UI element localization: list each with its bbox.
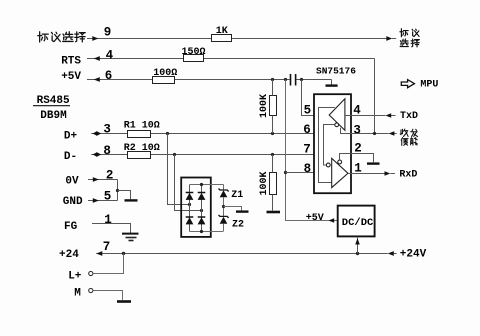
svg-text:+5V: +5V [61, 71, 81, 83]
diode bridge box [181, 178, 211, 237]
junction pin8 Vcc tap [284, 171, 287, 174]
arrow at pin 7 (left-pointing) [96, 251, 102, 256]
wire D- down to bridge [175, 155, 202, 211]
svg-text:Z2: Z2 [232, 220, 244, 231]
diode D2 (upper-right) [198, 192, 206, 194]
wire L+ to +24 junction [93, 254, 124, 274]
junction bridge top rail [200, 183, 203, 186]
op-amp U1 SN75176 body [314, 94, 351, 193]
resistor 100K lower [270, 173, 277, 195]
svg-text:FG: FG [64, 221, 78, 233]
ground bar at M [117, 300, 131, 303]
wire net +24V rail [96, 253, 387, 255]
svg-text:6: 6 [303, 123, 311, 137]
wire pin2 stub to ground [352, 154, 374, 163]
svg-text:7: 7 [303, 142, 311, 156]
wire net FG pin1 row [92, 224, 131, 234]
junction D- to bridge branch [173, 153, 176, 156]
wire pin1 stub to RxD [352, 173, 395, 175]
arrow 收发使能 (left-pointing) [389, 131, 395, 136]
wire net +5V pin6 row [87, 79, 332, 81]
junction D+ inside IC [317, 132, 320, 135]
svg-text:D-: D- [64, 151, 77, 163]
bridge right column wire [201, 185, 203, 232]
driver triangle inside U1 [329, 99, 345, 131]
junction bridge bottom rail [200, 230, 203, 233]
svg-text:8: 8 [103, 144, 111, 158]
arrow into DC/DC (up-pointing) [355, 238, 360, 244]
svg-text:4: 4 [106, 49, 114, 63]
wire net D+ pin3 row [91, 133, 318, 135]
wire tie to logic ground [118, 191, 131, 200]
bridge top rail wire [190, 184, 224, 186]
junction +24 and DC/DC input [356, 252, 359, 255]
svg-text:1: 1 [104, 213, 112, 227]
wire pin6 node down to receiver input [319, 134, 332, 183]
diode D1 (upper-left) [186, 192, 194, 194]
resistor R2 10Ω [128, 152, 151, 159]
earth ground 3-bar at FG [122, 233, 139, 235]
wire DC/DC input from +24V rail [357, 237, 359, 254]
resistor R1 10Ω [128, 131, 151, 138]
wire pin5 branch to IC [302, 80, 315, 116]
driver input wire from pin6 node [319, 108, 335, 134]
label 收发/使能 (two lines) [400, 129, 417, 145]
wire net GND pin5 row [88, 200, 118, 202]
wire net RTS pin4 row [87, 58, 375, 60]
label 协议/选择 (right, two lines) [400, 29, 419, 47]
wire pin2 inner [340, 154, 352, 161]
svg-text:100K: 100K [259, 94, 270, 118]
svg-text:SN75176: SN75176 [316, 66, 356, 77]
wire Z2 to bottom rail [223, 224, 225, 231]
zener Z1 [219, 189, 229, 192]
MPU open arrow symbol [401, 80, 414, 88]
bridge bottom rail wire [190, 231, 224, 233]
arrow at pin 6 (left-pointing) [94, 77, 100, 82]
arrow at pin 4 (left-pointing) [94, 56, 100, 61]
svg-text:+24V: +24V [400, 249, 427, 261]
wire zener midpoint to ground [224, 207, 242, 211]
DC/DC converter box [338, 206, 375, 237]
junction on +5V row at pin5 branch [300, 78, 303, 81]
ground bar under 100K lower [267, 211, 281, 214]
receiver enable bubble [326, 163, 330, 167]
svg-text:5: 5 [304, 104, 312, 118]
wire M to ground [93, 291, 123, 301]
svg-text:150Ω: 150Ω [182, 47, 206, 58]
svg-text:1K: 1K [216, 26, 228, 37]
capacitor C1 plates [291, 74, 296, 86]
svg-text:100Ω: 100Ω [153, 68, 177, 79]
svg-text:+5V: +5V [306, 213, 324, 224]
arrow +5V output (left-pointing) [329, 218, 335, 222]
arrow at pin 2 (right-pointing) [93, 177, 99, 182]
svg-text:0V: 0V [65, 176, 79, 188]
junction 0V/GND tie [116, 189, 119, 192]
junction pin3 with RTS vertical [373, 132, 376, 135]
wire 100K upper leads [272, 80, 274, 134]
junction D- inside IC enable chain [322, 153, 325, 156]
arrow at +24V right end (left-pointing) [388, 251, 394, 256]
arrow TxD (left-pointing) [385, 113, 391, 118]
resistor 150Ω [184, 55, 204, 62]
svg-text:D+: D+ [64, 131, 78, 143]
diode D4 (lower-right) [198, 216, 206, 218]
ground bar at zener midpoint [236, 210, 249, 212]
double arrow at D- [93, 152, 98, 157]
resistor 100K upper [270, 96, 277, 116]
wire pin3 stub to 收发使能 [352, 133, 397, 135]
svg-text:7: 7 [103, 240, 111, 254]
junction D+ to bridge branch [166, 132, 169, 135]
wire pin8 stub [286, 172, 315, 174]
terminal circle M [89, 288, 93, 292]
ground bar near GND pins [125, 199, 138, 201]
wire pin1 inner [348, 173, 352, 175]
terminal circle L+ [89, 271, 93, 275]
ground bar at pin2 [367, 162, 380, 164]
svg-text:R1 10Ω: R1 10Ω [124, 121, 160, 132]
wire 0V-GND tie vertical [117, 180, 119, 201]
arrow to 协议选择 (right end) [386, 36, 392, 41]
junction +24 and L+ [122, 252, 125, 255]
diode D3 (lower-left) [186, 216, 194, 218]
divider under RS485 [33, 105, 70, 107]
svg-text:DC/DC: DC/DC [342, 217, 374, 229]
svg-text:M: M [74, 288, 81, 300]
wire RTS vertical to pin3 node [374, 59, 376, 134]
svg-text:RxD: RxD [399, 169, 417, 180]
wire D+ down to bridge [168, 134, 190, 205]
svg-text:Z1: Z1 [231, 190, 243, 201]
svg-text:100K: 100K [259, 171, 270, 195]
wire pin3 inner [341, 128, 352, 134]
wire net 0V pin2 row [88, 179, 118, 181]
junction D- at 100K top [271, 153, 274, 156]
ground bar after capacitor [331, 80, 333, 85]
zener Z2 [219, 215, 229, 218]
junction on +5V row at 100K top [271, 78, 274, 81]
wire net 协议选择 pin9 row [87, 38, 386, 40]
svg-text:3: 3 [353, 123, 361, 137]
receiver triangle inside U1 [332, 158, 348, 187]
wire +5V feed down to DC/DC output row [286, 80, 338, 221]
svg-text:6: 6 [105, 69, 113, 83]
background canvas [33, 26, 438, 302]
bridge left column wire [189, 185, 191, 232]
wire top rail to zener Z1 [223, 185, 225, 191]
svg-text:3: 3 [103, 123, 111, 137]
svg-text:L+: L+ [68, 270, 82, 282]
resistor 100Ω [153, 77, 175, 84]
double arrow at D+ [93, 131, 98, 136]
svg-text:2: 2 [106, 169, 114, 183]
svg-text:9: 9 [104, 26, 112, 40]
svg-text:RTS: RTS [61, 55, 81, 67]
junction at bridge right column [200, 209, 203, 212]
svg-text:GND: GND [63, 196, 83, 208]
svg-text:MPU: MPU [420, 80, 438, 91]
svg-text:DB9M: DB9M [40, 110, 67, 122]
receiver top bubble to pin2 [338, 160, 342, 164]
arrow at pin 9 (right-pointing) [92, 36, 98, 41]
svg-text:+24: +24 [59, 249, 79, 261]
junction zener midpoint [222, 205, 225, 208]
svg-text:R2 10Ω: R2 10Ω [124, 143, 160, 154]
svg-text:8: 8 [304, 162, 312, 176]
svg-text:5: 5 [104, 190, 112, 204]
junction at bridge left column [188, 203, 191, 206]
wire Z1 to Z2 [223, 197, 225, 216]
wire pin4 inner [345, 115, 352, 117]
wire pin4 stub to TxD [352, 115, 396, 117]
svg-text:TxD: TxD [400, 111, 418, 122]
resistor 1K [212, 35, 232, 42]
driver enable bubble [335, 123, 339, 127]
arrow at pin 5 (right-pointing) [93, 198, 99, 203]
junction D+ at 100K bottom [271, 132, 274, 135]
arrow RxD (right-pointing) [385, 171, 391, 176]
wire enable chain [324, 125, 335, 166]
junction on +5V row at DC/DC feed [284, 78, 287, 81]
wire net D- pin8 row [91, 154, 323, 156]
wire 100K lower leads [272, 155, 274, 211]
label 协议选择 (left) [38, 32, 86, 42]
